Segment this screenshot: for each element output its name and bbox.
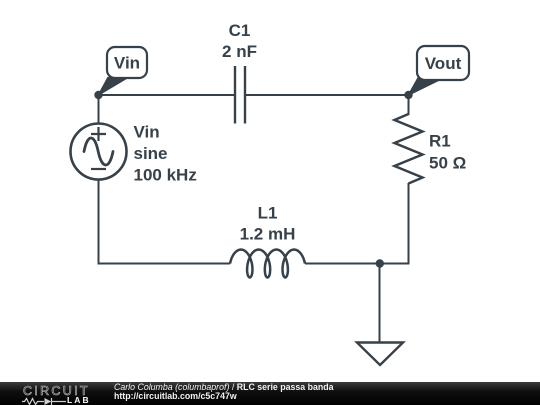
Vout flag tail <box>409 78 439 95</box>
footer credit line <box>114 383 334 392</box>
V1 sine wave <box>84 138 113 165</box>
V1 minus sign <box>91 168 106 170</box>
svg-text:Vin: Vin <box>134 123 160 142</box>
footer url line <box>114 392 237 401</box>
Vout flag box <box>417 46 469 80</box>
svg-text:100 kHz: 100 kHz <box>134 166 197 185</box>
node dot B (ground junction) <box>376 259 384 267</box>
svg-text:Vout: Vout <box>425 54 462 73</box>
resistor R1 zigzag <box>395 114 423 184</box>
wire top-left from Vin node to C1 left plate <box>99 94 236 96</box>
ground symbol triangle <box>357 343 403 366</box>
wire from L1 right end to bottom-right corner and up to R1 bottom <box>305 183 409 264</box>
inductor L1 coil <box>230 250 305 278</box>
svg-text:C1: C1 <box>229 21 251 40</box>
logo wire glyph (resistor + diode) <box>22 397 67 405</box>
svg-text:2 nF: 2 nF <box>222 42 257 61</box>
svg-text:Vin: Vin <box>114 54 140 73</box>
Vin flag box <box>107 47 147 78</box>
svg-text:sine: sine <box>134 144 168 163</box>
svg-text:R1: R1 <box>429 132 451 151</box>
footer bar <box>0 382 540 405</box>
CircuitLab logo wordmark LAB <box>67 395 91 405</box>
node dot C (Vout) <box>404 91 412 99</box>
wire top-right from C1 right plate to Vout node <box>245 94 409 96</box>
svg-text:L1: L1 <box>258 204 278 223</box>
wire from ground node down to ground symbol <box>379 264 381 343</box>
voltage source V1 circle <box>71 124 127 180</box>
svg-text:50 Ω: 50 Ω <box>429 154 466 173</box>
CircuitLab logo wordmark CIRCUIT <box>23 384 90 398</box>
capacitor C1 plates <box>234 66 236 124</box>
svg-text:1.2 mH: 1.2 mH <box>240 225 296 244</box>
wire from Vout node down to R1 top <box>408 95 410 115</box>
V1 plus sign <box>91 127 106 141</box>
node dot A (Vin) <box>94 91 102 99</box>
wire from V1 bottom down to bottom-left corner and right to L1 <box>99 180 231 264</box>
wire from Vin node down to V1 top <box>98 95 100 123</box>
Vin flag tail <box>99 78 128 96</box>
